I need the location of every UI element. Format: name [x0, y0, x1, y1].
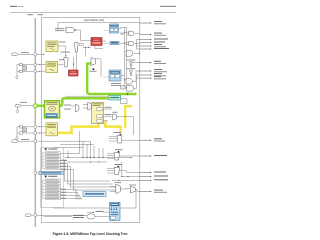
svg-text:Figure 2-8. MSP/MKxxx Top Leve: Figure 2-8. MSP/MKxxx Top Level Clocking…	[53, 232, 128, 236]
svg-text:Clock Module (CS): Clock Module (CS)	[84, 19, 104, 22]
